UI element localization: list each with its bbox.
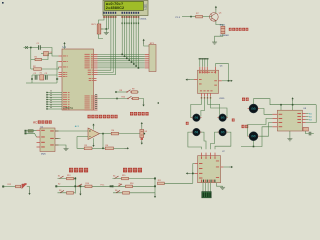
resistor C2 <box>126 183 134 188</box>
resistor R7 <box>196 15 203 18</box>
wire chain to U7 <box>164 182 193 184</box>
MCU U1 label <box>63 45 67 49</box>
node B2 <box>55 185 57 187</box>
svg-text:R9: R9 <box>132 89 134 91</box>
wire U8 right to rail <box>306 105 317 123</box>
MCU left pin names top <box>63 56 68 68</box>
label signal amplifier module <box>88 115 118 119</box>
wire P0.3 horizontal <box>98 59 145 61</box>
label direction control <box>69 168 88 173</box>
wire M3 right down <box>201 132 206 149</box>
svg-text:R16: R16 <box>130 183 133 185</box>
label right wheel <box>232 119 235 122</box>
label alarm module <box>229 28 249 31</box>
junction D3/P0.3 <box>128 59 130 61</box>
wire op-amp in- <box>77 136 88 138</box>
switch B2 <box>77 184 82 187</box>
junction XTAL <box>31 78 58 80</box>
wire LCD D2 vertical <box>126 16 128 59</box>
optocoupler U2 label <box>41 126 44 128</box>
LCD value label <box>140 18 148 20</box>
wire P0.1 horizontal <box>98 55 145 57</box>
U8 left pin stubs <box>272 114 277 127</box>
ground U2 <box>64 148 69 151</box>
MCU right pin names ctl <box>88 70 93 75</box>
wire row2 end <box>139 99 144 102</box>
switch C2 <box>118 184 122 187</box>
switch B3 <box>59 190 64 193</box>
wire P0.4 horizontal <box>98 61 145 63</box>
resistor R11 <box>158 180 165 185</box>
svg-text:LM016L: LM016L <box>140 18 148 20</box>
resistor R12 <box>16 185 21 188</box>
MCU right pin stubs ALE/PSEN <box>94 79 97 81</box>
U6 inner side marks <box>199 79 217 86</box>
switch C1 <box>113 175 119 178</box>
power terminal op-amp <box>92 124 94 130</box>
U6 value label <box>219 98 225 100</box>
wire U7 ground <box>217 183 223 187</box>
capacitor C3 <box>45 73 48 80</box>
wire U8 pin1 to M5 <box>260 109 273 115</box>
wire XTAL to MCU <box>57 62 59 80</box>
LCD module LCD1 body <box>103 1 148 16</box>
wire RV1 bottom <box>99 34 104 39</box>
wire row1 end <box>138 91 140 93</box>
wire M6 bottom <box>253 141 255 147</box>
ground U8 <box>287 138 292 141</box>
MCU right pin numbers P2 <box>95 94 97 109</box>
junction alarm <box>190 16 192 18</box>
net caps U6 top <box>199 58 209 59</box>
U7 top pin names <box>201 156 216 159</box>
resistor B1 <box>67 175 74 180</box>
wire feedback mid <box>92 147 105 149</box>
MCU left pin numbers P3 <box>50 91 52 108</box>
component X2 <box>41 52 52 56</box>
transistor Q1 <box>210 13 219 22</box>
junction U8 top left <box>280 104 282 106</box>
junction RV1 wiper <box>106 28 108 30</box>
svg-text:X1: X1 <box>40 72 42 74</box>
wire U7 left top <box>193 163 195 165</box>
wire U2 out bottom <box>55 145 66 148</box>
wire forklift rail <box>154 177 156 194</box>
junction M6 bottom <box>253 146 255 148</box>
wire U6 pin5 loop <box>216 64 229 81</box>
junction U8 power <box>292 104 294 106</box>
motor M2 right-front <box>217 114 227 122</box>
switch B2 labels <box>58 184 60 186</box>
wire C2r <box>113 185 156 187</box>
wire B3 <box>58 192 76 194</box>
wire C3r <box>113 192 155 194</box>
ground terminal sensor <box>141 140 143 144</box>
svg-text:P1.3: P1.3 <box>176 17 181 19</box>
wire row2 <box>98 98 129 100</box>
net labels U8 right <box>309 114 312 122</box>
MCU U1 body AT89C51 <box>62 49 94 110</box>
power terminal left <box>24 46 28 49</box>
svg-text:R14: R14 <box>86 183 89 185</box>
wire row1 <box>116 91 127 93</box>
U7 inner labels <box>199 163 202 179</box>
wire U2 out mid <box>55 138 61 140</box>
wire power to RP1 <box>144 44 149 46</box>
svg-text:LCD1: LCD1 <box>145 3 147 10</box>
MCU left pin names mid <box>63 72 67 77</box>
svg-text:IN3: IN3 <box>309 120 312 122</box>
U7 bottom pin strip <box>201 180 215 183</box>
origin marker <box>2 2 4 4</box>
wire LCD D5 vertical <box>133 16 135 65</box>
U2 right pin stubs <box>55 131 59 145</box>
wire U7 right <box>223 166 228 168</box>
terminal U7 right <box>229 166 233 168</box>
svg-text:C3: C3 <box>45 73 47 75</box>
wire LCD VDD down <box>105 16 107 30</box>
U2 value label <box>41 154 47 156</box>
node C2 <box>112 185 114 187</box>
junction output <box>102 133 104 135</box>
wire op-amp in+ <box>55 130 88 132</box>
label frontback motor <box>242 125 249 128</box>
MCU left pin stubs mid (PSEN/ALE/EA) <box>59 73 63 77</box>
junction rail B2 <box>74 185 76 187</box>
U8 right pin stubs <box>302 114 305 123</box>
wire P0.0 horizontal <box>98 53 145 55</box>
motor M6 frontback <box>248 132 260 141</box>
motor M5 updown <box>248 104 260 113</box>
resistor R2 <box>34 68 42 71</box>
junction B2 right <box>110 185 112 187</box>
label left wheel <box>186 122 189 125</box>
junction sensor <box>144 133 146 135</box>
label forklift control <box>123 168 142 173</box>
U2 right pin names <box>50 130 54 145</box>
label speed sensor module <box>130 112 149 116</box>
node chain A <box>2 186 4 188</box>
resistor R4 <box>111 130 118 135</box>
junction U6 right <box>228 80 230 82</box>
wire U6 right <box>222 80 229 82</box>
node stub row2 <box>116 98 118 100</box>
motor M4 right-rear <box>217 128 227 136</box>
LCD screen <box>105 1 144 10</box>
svg-text:S2: S2 <box>58 184 60 186</box>
switch row1 <box>126 90 131 93</box>
U7 right pin stub <box>221 166 224 168</box>
motor M3 left-rear <box>191 128 201 136</box>
svg-text:(M): (M) <box>195 131 199 134</box>
node AC input A <box>25 130 27 132</box>
junction U7 input <box>192 173 194 175</box>
wires U8 right <box>306 114 309 120</box>
LCD data pin numbers <box>122 22 140 24</box>
label AC detection module <box>33 120 52 124</box>
wire XTAL bottom rail <box>32 82 57 84</box>
node stub row1 <box>115 91 117 93</box>
wire P0.7 horizontal <box>98 67 145 69</box>
driver U7 label <box>222 151 225 153</box>
ground terminal forklift <box>154 194 156 199</box>
driver U6 label <box>220 66 223 68</box>
sensor Q2 body <box>140 130 144 138</box>
wire sounder to ground <box>215 34 223 41</box>
svg-text:S4: S4 <box>113 175 115 177</box>
MCU right pin stubs P2 <box>94 96 98 110</box>
power terminal for RP1 <box>143 39 145 44</box>
U8 left pin names <box>279 114 283 127</box>
ground terminal direction <box>79 185 81 195</box>
header J1 <box>202 192 211 198</box>
switch row2 label <box>122 97 125 99</box>
resistor row1 <box>132 89 138 94</box>
component U8 bottom right <box>303 127 308 131</box>
svg-text:R15: R15 <box>122 175 125 177</box>
net label B2 <box>101 184 105 186</box>
power terminal Q1 collector <box>215 6 217 13</box>
MCU right pin names P2 <box>85 96 93 111</box>
wire P0.6 horizontal <box>98 65 145 67</box>
wire U8 pin4 <box>241 127 272 147</box>
wire U8 top left drop <box>280 105 282 111</box>
wire U7 left vertical <box>192 164 194 184</box>
potentiometer RV1 <box>97 24 103 34</box>
MCU left pin wires P3 <box>46 92 62 110</box>
wire R1 right <box>42 54 49 60</box>
wire VDD to ground <box>105 29 107 32</box>
U6 inner labels bottom <box>200 89 213 92</box>
wire XTAL left vert <box>31 75 33 83</box>
svg-text:2=4580C2: 2=4580C2 <box>106 6 124 10</box>
ground alarm <box>212 41 217 44</box>
label updown motor <box>242 98 249 101</box>
wire U2 out top <box>55 130 59 132</box>
svg-text:(M): (M) <box>221 117 225 120</box>
power terminal U8 <box>292 97 294 110</box>
svg-text:R8: R8 <box>120 90 122 92</box>
wire M4 right down <box>215 132 231 149</box>
svg-text:(M): (M) <box>251 106 255 110</box>
capacitor U8 <box>309 132 314 136</box>
svg-text:R13: R13 <box>67 175 70 177</box>
wire LCD D6 vertical <box>135 16 137 67</box>
MCU left pin names P3 <box>63 92 70 109</box>
net label op-amp input <box>75 125 80 128</box>
power terminal EA <box>63 42 65 46</box>
wire U6 out2 <box>201 96 205 116</box>
svg-text:S1: S1 <box>58 175 60 177</box>
junction top rail <box>30 47 32 49</box>
sensor lower glyph <box>141 138 143 140</box>
svg-text:L293D: L293D <box>219 98 225 100</box>
wire LCD control RS <box>98 16 111 71</box>
svg-text:(M): (M) <box>221 131 225 134</box>
terminal U6 right <box>229 80 233 82</box>
switch row1 label <box>120 90 122 92</box>
capacitor C2 <box>34 73 37 80</box>
wire P0.2 horizontal <box>98 57 145 59</box>
wires U7 bottom to header <box>203 183 211 192</box>
wire M4 left down <box>211 132 219 149</box>
junction rail B1 <box>74 178 76 180</box>
wire B2 <box>56 185 112 187</box>
U7 left pin stubs <box>195 164 198 174</box>
wires U6 top pins up <box>200 59 208 66</box>
svg-text:(M): (M) <box>251 134 255 138</box>
MCU left pin stubs top <box>59 56 63 67</box>
junction D4/P0.4 <box>131 61 133 63</box>
wire LCD VSS down <box>99 16 105 25</box>
U6 bottom pin numbers <box>201 97 211 99</box>
wire LCD D1 vertical <box>124 16 126 57</box>
svg-text:IN2: IN2 <box>309 117 312 119</box>
wire B1 <box>58 178 76 180</box>
junction D7/P0.7 <box>138 67 140 69</box>
wire U8 top rail <box>286 104 316 106</box>
resistor B2 <box>85 183 92 188</box>
wire Q1 emitter to sounder <box>216 21 223 27</box>
svg-text:R10: R10 <box>122 97 125 99</box>
ground for LCD contrast <box>104 32 109 35</box>
wire R2 left <box>31 68 34 70</box>
U6 left pin stub <box>194 79 198 81</box>
terminal U6 left <box>186 79 195 81</box>
wire XTAL left ext <box>26 82 32 84</box>
wire feedback vertical <box>102 134 104 149</box>
U6 top pin stubs <box>200 67 216 70</box>
power terminal sensor <box>141 122 143 130</box>
wire U6 out1 <box>191 96 202 118</box>
wire LCD control RW <box>98 16 114 73</box>
junction D5/P0.5 <box>133 63 135 65</box>
wire output to sensor <box>119 133 140 135</box>
MCU right pin stubs ctl <box>94 70 98 74</box>
wire U6 out3 <box>208 96 220 118</box>
resistor R1 label <box>35 56 38 58</box>
svg-text:AC: AC <box>33 121 38 125</box>
net label alarm input <box>176 17 181 19</box>
MCU right pin names ALE/PSEN <box>89 78 93 81</box>
LCD label LCD1 <box>145 3 147 10</box>
wire chain A <box>3 186 15 188</box>
junction rail C2 <box>154 185 156 187</box>
wire left vertical rail <box>30 48 32 70</box>
U6 top pin names <box>199 71 216 74</box>
U7 top pin stubs <box>202 153 216 156</box>
LCD text row 2 <box>106 6 124 10</box>
LCD text row 1 <box>106 2 124 6</box>
wire U8 ground <box>289 131 291 138</box>
sensor label <box>145 131 148 133</box>
wire LCD control E <box>98 16 116 75</box>
optocoupler U2 body <box>40 128 55 152</box>
MCU right pin stubs P0 <box>94 54 98 68</box>
terminal feedback right <box>125 147 130 149</box>
wire LCD D4 vertical <box>131 16 133 63</box>
terminal U7 input <box>186 172 195 174</box>
svg-text:(M): (M) <box>195 117 199 120</box>
wire C1 right <box>41 48 59 57</box>
resistor R1 <box>35 58 42 60</box>
capacitor C1 <box>39 45 41 49</box>
resistor R5 <box>84 145 92 150</box>
wire LCD VEE down <box>108 16 110 30</box>
sounder value label <box>220 35 230 37</box>
motor M1 left-front <box>191 114 201 122</box>
U2 left pin stubs <box>37 130 41 147</box>
ground U7 <box>220 186 225 189</box>
U6 bottom pin stubs <box>202 93 211 96</box>
resistor R2 label <box>33 66 36 68</box>
wire direction rail <box>74 177 76 194</box>
wire AC in B <box>26 133 37 137</box>
AC inline component <box>28 130 33 133</box>
switch C3 <box>115 190 120 193</box>
wire inverting feedback <box>77 137 84 149</box>
switch B1 <box>58 175 64 178</box>
svg-text:R12: R12 <box>8 184 11 186</box>
svg-text:C2: C2 <box>34 73 36 75</box>
wire XTAL top rail <box>32 74 57 76</box>
motor driver U8 body <box>277 110 302 131</box>
wire alarm base <box>182 16 196 18</box>
resistor pack RP1 body <box>149 45 156 72</box>
MCU value label AT89C51 <box>63 107 74 110</box>
svg-text:IN1: IN1 <box>309 114 312 116</box>
wire chain A end <box>27 187 30 191</box>
wire feedback right <box>114 147 125 149</box>
junction D6/P0.6 <box>135 65 137 67</box>
junction feedback <box>102 148 104 150</box>
op-amp U3:A <box>88 128 100 140</box>
wire R7 to base <box>203 16 212 18</box>
resistor B3 <box>67 192 74 195</box>
LCD pin-name row <box>103 12 139 14</box>
component X2 label <box>50 52 53 54</box>
RP1 pins <box>145 54 149 68</box>
resistor R6 <box>105 145 113 150</box>
wire P0.5 horizontal <box>98 63 145 65</box>
resistor row2 <box>133 97 139 99</box>
U2 left pin names <box>41 130 45 148</box>
junction D0/P0.0 <box>121 54 123 56</box>
capacitor C1 label <box>37 43 40 45</box>
wire U8 pin3 to M6 <box>260 123 273 137</box>
ground terminal op-amp <box>92 138 94 147</box>
wire U6 out4 <box>211 96 228 118</box>
resistor R7 label <box>196 13 199 15</box>
wire EA power <box>64 46 66 49</box>
U6 right pin stub <box>219 80 222 82</box>
wire op-amp output <box>100 133 112 135</box>
wire AC in A2 <box>33 129 36 132</box>
U8 right pin names <box>297 113 301 123</box>
wire XTAL right vert <box>56 75 58 83</box>
wire C1r <box>113 178 156 180</box>
crystal X1 <box>40 72 44 80</box>
ground terminal row2 <box>142 102 144 107</box>
motor driver U6 body <box>198 70 219 93</box>
wire LCD D3 vertical <box>128 16 130 61</box>
wire M5 top <box>254 99 287 105</box>
junction rail C1 <box>154 178 156 180</box>
node AC input B <box>25 132 27 134</box>
junction D2/P0.2 <box>126 58 128 60</box>
MCU right pin names P0 <box>85 54 93 68</box>
wire top rail <box>27 47 39 49</box>
